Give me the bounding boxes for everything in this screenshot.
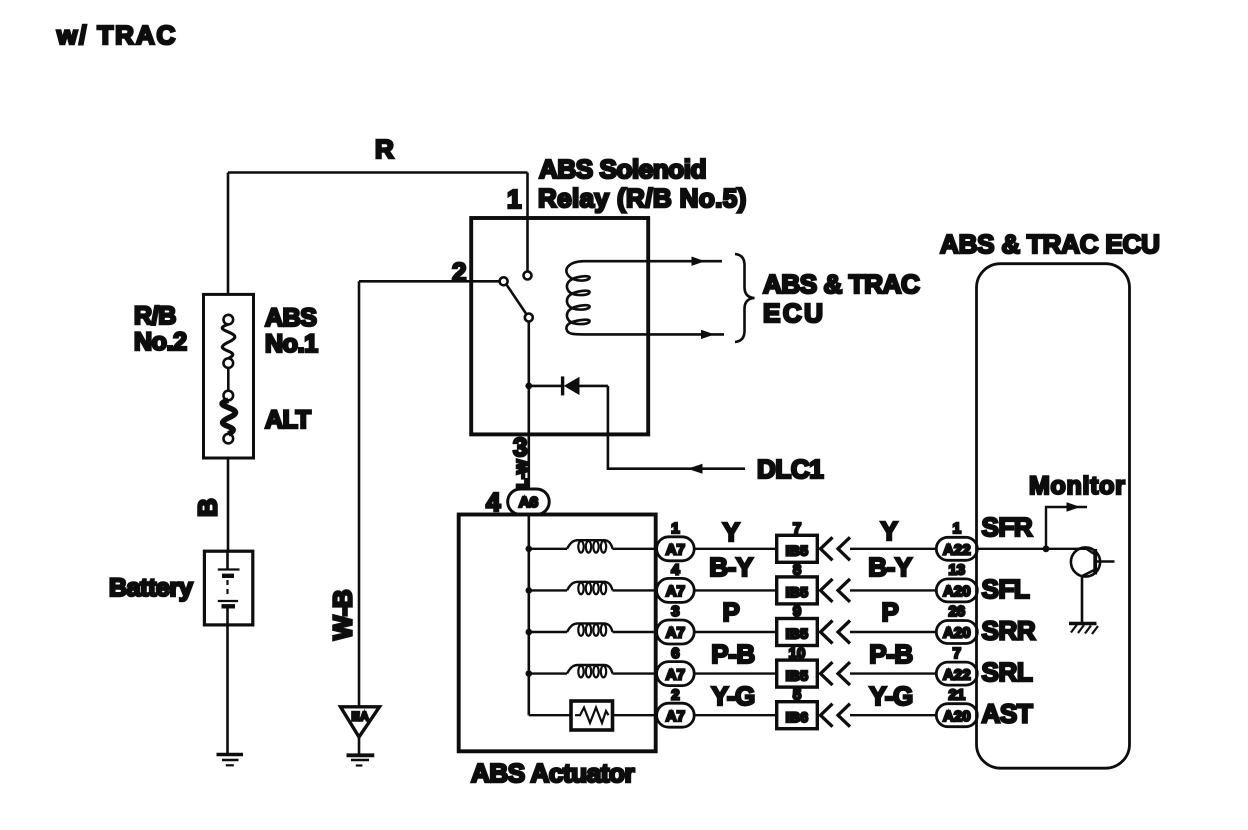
svg-text:Battery: Battery <box>109 574 193 602</box>
wire chevron to A20 row2 <box>850 589 936 591</box>
svg-text:IB5: IB5 <box>786 584 809 600</box>
wire A7 to IB6 row5 <box>694 714 777 716</box>
svg-text:SFR: SFR <box>982 512 1033 542</box>
svg-text:21: 21 <box>948 686 965 703</box>
connector A7 pin 4 <box>657 578 695 602</box>
wire fuse box to battery, label B <box>227 458 230 552</box>
svg-text:4: 4 <box>671 562 680 579</box>
svg-text:1: 1 <box>507 184 521 214</box>
svg-text:A7: A7 <box>666 666 685 683</box>
wire A7 to IB5 row3 <box>694 631 777 633</box>
wire W-B vertical to ground EA <box>358 281 361 706</box>
svg-text:10: 10 <box>789 645 806 662</box>
svg-text:5: 5 <box>793 686 801 703</box>
wire chevron to A20 row5 <box>850 714 936 716</box>
svg-text:P: P <box>882 597 899 627</box>
wire bus corner to resistor row5 <box>529 714 571 716</box>
svg-text:A20: A20 <box>943 583 971 600</box>
connector IB5 pin 8 <box>777 577 818 604</box>
chevrons row4 <box>821 662 833 685</box>
fuse ALT <box>224 391 234 401</box>
svg-text:SRR: SRR <box>982 616 1036 646</box>
connector A20 pin 21 <box>936 704 977 727</box>
connector A20 pin 26 <box>936 621 977 644</box>
arrow to DLC1 (left) <box>688 464 703 474</box>
wire diode to DLC1 <box>608 386 745 469</box>
svg-text:Y-G: Y-G <box>711 681 755 711</box>
svg-text:A7: A7 <box>666 542 685 559</box>
solenoid coil row2 <box>567 582 613 591</box>
relay box ABS Solenoid Relay (R/B No.5) <box>471 218 648 434</box>
svg-text:w/ TRAC: w/ TRAC <box>56 20 177 50</box>
svg-text:7: 7 <box>793 520 801 537</box>
svg-text:2: 2 <box>671 686 679 703</box>
svg-text:A7: A7 <box>666 583 685 600</box>
svg-text:3: 3 <box>671 603 679 620</box>
svg-text:Y: Y <box>881 516 898 546</box>
connector A22 pin 1 <box>936 537 977 560</box>
wire coil to A7 row1 <box>613 548 657 550</box>
svg-text:No.2: No.2 <box>134 328 187 356</box>
chevrons row2 <box>821 579 833 602</box>
connector A7 pin 1 <box>657 537 695 561</box>
svg-text:SRL: SRL <box>982 657 1033 687</box>
svg-text:No.1: No.1 <box>265 330 318 358</box>
svg-text:A20: A20 <box>943 625 971 642</box>
svg-text:Y: Y <box>723 517 740 547</box>
svg-text:P-B: P-B <box>711 639 755 669</box>
svg-text:7: 7 <box>953 645 961 662</box>
ground EA triangle <box>341 707 380 737</box>
wire lower contact down to pin 3 and A6 <box>527 322 530 490</box>
wire into ECU row1 <box>977 548 1046 550</box>
svg-text:A6: A6 <box>519 494 538 511</box>
wire bus to coil row4 <box>529 672 567 674</box>
svg-text:ABS Actuator: ABS Actuator <box>471 758 635 788</box>
chevrons row1 <box>821 537 833 560</box>
junction dot row1 <box>526 546 533 553</box>
connector IB5 pin 10 <box>777 660 818 687</box>
svg-text:P-B: P-B <box>869 639 913 669</box>
wire coil to A7 row3 <box>613 631 657 633</box>
wire bus to coil row2 <box>529 589 567 591</box>
solenoid coil row1 <box>567 540 613 549</box>
connector A7 pin 3 <box>657 620 695 644</box>
svg-text:P: P <box>723 597 740 627</box>
wire battery to ground <box>226 625 229 753</box>
svg-text:6: 6 <box>671 645 679 662</box>
svg-text:8: 8 <box>793 562 801 579</box>
chevrons row3 <box>821 621 833 644</box>
connector A20 pin 13 <box>936 579 977 602</box>
svg-text:A22: A22 <box>943 666 971 683</box>
svg-text:9: 9 <box>793 603 801 620</box>
svg-text:ALT: ALT <box>265 406 311 434</box>
svg-text:B-Y: B-Y <box>709 552 753 582</box>
wire relay pin 2 horizontal <box>359 280 500 283</box>
wire relay pin 1 drop <box>526 173 529 272</box>
svg-text:ABS: ABS <box>265 304 317 332</box>
battery <box>204 551 252 625</box>
relay switch pivot contact <box>500 277 508 285</box>
connector A7 pin 6 <box>657 662 695 686</box>
svg-text:1: 1 <box>953 520 961 537</box>
connector A6 <box>508 489 550 515</box>
wire chevron to A22 row4 <box>850 672 936 674</box>
svg-text:IB6: IB6 <box>786 709 809 725</box>
relay switch lower contact <box>525 314 533 322</box>
wire A7 to IB5 row1 <box>694 548 777 550</box>
junction dot (diode tap) <box>525 383 532 390</box>
relay coil L1 <box>566 261 648 334</box>
solenoid coil row4 <box>567 665 613 674</box>
junction dot (monitor tap) <box>1043 545 1050 552</box>
svg-text:SFL: SFL <box>982 574 1030 604</box>
ABS Actuator box <box>459 515 656 752</box>
svg-text:EA: EA <box>352 710 370 724</box>
connector A22 pin 7 <box>936 662 977 685</box>
svg-text:A7: A7 <box>666 625 685 642</box>
ECU box ABS & TRAC ECU <box>977 264 1130 769</box>
brace to ABS & TRAC ECU <box>735 254 755 342</box>
connector IB5 pin 9 <box>777 619 818 646</box>
svg-text:4: 4 <box>486 487 501 517</box>
svg-text:A7: A7 <box>666 708 685 725</box>
wire R horizontal (battery feed to relay pin 1) <box>228 171 528 174</box>
wire coil bottom to ECU arrow <box>648 333 724 336</box>
wire A7 to IB5 row4 <box>694 672 777 674</box>
svg-text:IB5: IB5 <box>786 667 809 683</box>
actuator bus wire <box>527 515 530 716</box>
svg-text:A20: A20 <box>943 708 971 725</box>
svg-text:B-Y: B-Y <box>868 552 912 582</box>
wire chevron to A20 row3 <box>850 631 936 633</box>
svg-text:ECU: ECU <box>763 298 825 328</box>
svg-text:26: 26 <box>948 603 965 620</box>
svg-text:AST: AST <box>982 699 1033 729</box>
wire coil top to ECU arrow <box>648 260 722 263</box>
ground (ECU, hatched) <box>1069 622 1097 625</box>
svg-text:DLC1: DLC1 <box>757 454 823 484</box>
transistor Q1 <box>1046 548 1087 550</box>
svg-text:3: 3 <box>513 432 527 462</box>
svg-text:L-W: L-W <box>514 459 531 488</box>
svg-text:ABS Solenoid: ABS Solenoid <box>539 154 706 184</box>
svg-text:B: B <box>193 499 223 517</box>
wire chevron to A22 row1 <box>850 548 936 550</box>
svg-text:Relay (R/B No.5): Relay (R/B No.5) <box>538 183 747 213</box>
svg-text:ABS & TRAC: ABS & TRAC <box>763 269 920 299</box>
svg-text:IB5: IB5 <box>786 626 809 642</box>
wire left vertical down to fuse box <box>227 173 230 296</box>
svg-text:Monitor: Monitor <box>1029 472 1126 500</box>
fuse ABS No.1 <box>224 315 234 325</box>
chevrons row5 <box>821 704 833 727</box>
svg-text:Y-G: Y-G <box>869 681 913 711</box>
ground (battery) <box>217 753 244 757</box>
connector A7 pin 2 <box>657 703 695 727</box>
resistor R1 <box>571 701 613 730</box>
rows <box>526 512 1047 730</box>
svg-text:13: 13 <box>948 562 965 579</box>
svg-text:2: 2 <box>452 257 466 287</box>
svg-text:ABS & TRAC ECU: ABS & TRAC ECU <box>940 229 1160 259</box>
connector IB5 pin 7 <box>777 535 818 562</box>
wire resistor to A7 row5 <box>613 714 657 716</box>
svg-text:IB5: IB5 <box>786 543 809 559</box>
wire bus to coil row3 <box>529 631 567 633</box>
wire A7 to IB5 row2 <box>694 589 777 591</box>
svg-text:R/B: R/B <box>134 302 176 330</box>
wire coil to A7 row4 <box>613 672 657 674</box>
relay switch upper contact <box>524 272 532 280</box>
relay switch arm <box>506 284 526 314</box>
wire between fuses <box>227 368 230 391</box>
wire bus to coil row1 <box>529 548 567 550</box>
fuse box R/B No.2 <box>204 294 254 458</box>
svg-text:1: 1 <box>671 520 679 537</box>
diode D1 <box>531 385 561 388</box>
connector IB6 pin 5 <box>777 702 818 729</box>
ground (EA) <box>347 753 375 757</box>
wire coil to A7 row2 <box>613 589 657 591</box>
svg-text:A22: A22 <box>943 542 971 559</box>
svg-text:W-B: W-B <box>328 590 358 640</box>
svg-text:R: R <box>375 134 394 164</box>
solenoid coil row3 <box>567 623 613 632</box>
